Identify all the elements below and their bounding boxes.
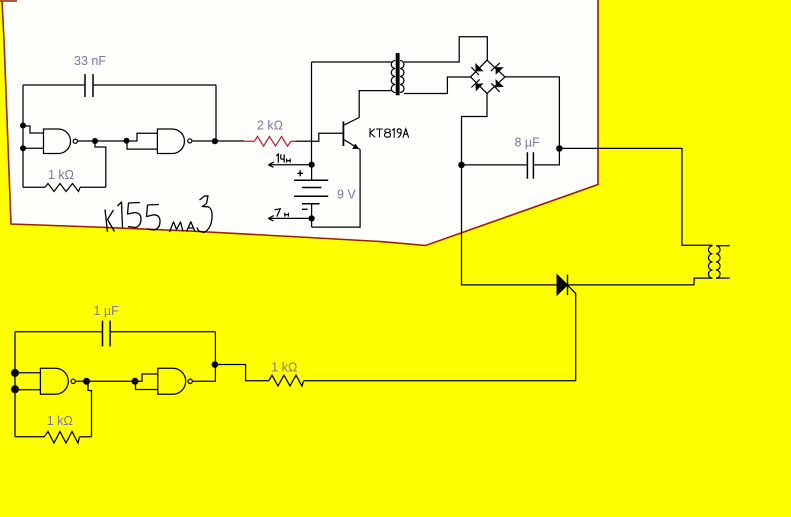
resistor R2 2 kOhm red leads — [244, 140, 296, 142]
wire: T1 secondary bottom to bridge left — [404, 77, 471, 94]
wire: jog node I to DD2.2 lower input — [136, 381, 158, 389]
wire: R1 left lead — [23, 186, 45, 188]
wire: node E to capacitor C2 — [462, 164, 528, 166]
label minus sign — [302, 208, 308, 210]
resistor R2 2 kOhm red zigzag — [255, 136, 292, 146]
thyristor VS1 cathode bar — [567, 275, 569, 296]
wire: pin-7 arrow line — [268, 216, 311, 221]
wire: R4 to thyristor gate — [304, 380, 576, 382]
wire: bottom top rail to capacitor C3 — [15, 331, 215, 333]
NAND gate DD2.2 — [158, 368, 186, 394]
junction node battery minus — [309, 215, 315, 221]
wire: jog from node C to DD1.2 upper input — [127, 133, 158, 141]
resistor R3 1 kOhm zigzag — [44, 432, 79, 444]
wire: C3 right vertical to node H — [214, 332, 216, 365]
wire: right vertical from C1 to gate output node — [215, 85, 217, 141]
diode VD3 (bridge bottom-left) — [471, 79, 483, 91]
wire: left vertical of top oscillator — [22, 85, 24, 187]
transformer T1 primary winding — [391, 61, 395, 93]
wire: bottom oscillator left vertical — [14, 332, 16, 437]
red border of white region — [0, 0, 598, 246]
NAND gate DD1.1 — [44, 129, 71, 154]
wire: node B to DD1.1 lower input — [23, 147, 44, 149]
junction node DD1.2 output — [212, 138, 218, 144]
wire: node G to DD2.1 lower input — [15, 389, 40, 391]
transistor VT1 emitter stroke — [344, 140, 360, 150]
wire: R1 right lead — [80, 186, 106, 188]
NAND gate DD1.2 — [157, 129, 184, 154]
junction node B — [20, 145, 26, 151]
wire: capacitor C2 to node D — [533, 148, 559, 165]
wire: DD1.2 output to R2 — [192, 140, 244, 142]
wire: node E down to thyristor anode — [462, 165, 558, 285]
label plus sign — [298, 170, 304, 176]
wire: emitter down and to battery minus — [312, 150, 361, 228]
wire: node D to T2 primary top — [559, 148, 712, 245]
wire: jog from node C to DD1.2 lower input — [127, 141, 157, 149]
junction node E — [458, 162, 465, 169]
svg-text:33 nF: 33 nF — [74, 54, 106, 68]
transformer T2 primary winding — [708, 246, 712, 278]
wire: base jog to transistor VT1 — [312, 133, 344, 141]
transformer T1 secondary winding — [400, 61, 404, 93]
svg-text:1 kΩ: 1 kΩ — [47, 414, 73, 428]
wire: node F to DD2.1 upper input — [15, 372, 40, 374]
wire: bridge bottom to node E — [462, 94, 488, 165]
diode VD2 (bridge top-right) — [491, 63, 504, 75]
label 7n handwritten — [275, 209, 289, 217]
thyristor VS1 gate lead — [568, 286, 576, 381]
wire: T1 secondary top to bridge top — [404, 37, 487, 62]
junction node G — [11, 385, 19, 393]
wire: feedback jog down to R1 — [95, 141, 106, 187]
capacitor C1 33 nF plates — [85, 74, 93, 97]
capacitor C2 8 uF plates — [527, 152, 533, 179]
NAND gate DD2.1 — [40, 368, 68, 394]
wire: jog from node A to DD1.1 upper input — [23, 126, 44, 133]
transistor VT1 emitter arrow — [352, 144, 359, 149]
wire: T2 secondary bottom stub — [716, 277, 730, 279]
svg-text:9 V: 9 V — [337, 188, 356, 202]
resistor R1 1 kOhm zigzag — [45, 184, 80, 192]
label KT819A — [370, 129, 409, 138]
NAND gate DD2.1 output bubble — [71, 379, 75, 383]
junction node C — [124, 138, 130, 144]
resistor R4 1 kOhm zigzag — [269, 375, 304, 386]
wire: jog node I to DD2.2 upper input — [135, 374, 158, 381]
wire: battery bottom lead — [311, 204, 313, 227]
svg-text:8 µF: 8 µF — [515, 136, 541, 150]
wire: main vertical rail x=311 — [311, 62, 313, 165]
svg-text:1 kΩ: 1 kΩ — [48, 168, 74, 182]
junction node battery plus — [309, 162, 315, 168]
bridge VD1-VD4 diamond — [471, 60, 506, 93]
wire: bridge right corner to node D — [505, 77, 559, 148]
junction node I — [132, 378, 139, 385]
wire: T2 secondary top stub — [716, 245, 730, 247]
label K155LA3 handwritten — [105, 196, 212, 233]
wire: T1 primary bottom to collector — [359, 91, 392, 118]
wire: top feedback rail to capacitor C1 — [23, 84, 216, 86]
svg-text:1 kΩ: 1 kΩ — [271, 360, 297, 374]
transistor VT1 base bar — [342, 121, 344, 146]
wire: node H to R4 — [215, 365, 269, 381]
wire: thyristor cathode to T2 primary bottom — [568, 278, 713, 285]
svg-text:1 µF: 1 µF — [94, 304, 120, 318]
thyristor VS1 triangle — [557, 275, 568, 296]
capacitor C3 1 uF plates — [103, 321, 111, 347]
battery GB1 plate short bottom — [302, 203, 320, 205]
junction node DD2.1 output — [83, 378, 90, 385]
wire: R3 left lead — [15, 436, 44, 438]
wire: top rail to transformer T1 — [312, 61, 393, 63]
wire: DD2.2 output up to node H — [192, 365, 215, 382]
wire: R3 right lead — [80, 436, 92, 438]
battery GB1 plate long — [294, 195, 328, 197]
wire: pin-14 arrow line — [268, 162, 311, 167]
diode VD1 (bridge top-left) — [471, 63, 483, 75]
label 14n handwritten — [276, 154, 290, 163]
diode VD4 (bridge bottom-right) — [491, 79, 504, 92]
wire: feedback step down to R3 — [88, 381, 92, 437]
wire: R2 to base node — [296, 140, 311, 142]
junction node F — [11, 369, 19, 377]
NAND gate DD1.1 output bubble — [73, 139, 77, 143]
white drawing region — [2, 0, 597, 246]
battery GB1 plate short — [302, 187, 322, 189]
transistor VT1 KT819A — [343, 118, 360, 150]
NAND gate DD2.2 output bubble — [188, 379, 192, 383]
junction node A — [20, 123, 26, 129]
junction node D — [556, 145, 563, 152]
svg-text:2 kΩ: 2 kΩ — [257, 119, 283, 133]
junction node H — [212, 361, 219, 368]
junction node on DD1.1 output — [92, 138, 98, 144]
battery GB1 plate long top — [294, 179, 328, 181]
NAND gate DD1.2 output bubble — [188, 139, 192, 143]
transformer T2 secondary winding — [716, 246, 720, 278]
wire: battery top lead — [311, 165, 313, 181]
wire: DD2.1 output to DD2.2 input node — [75, 380, 135, 382]
wire: DD1.1 output to DD1.2 input node — [78, 140, 127, 142]
transformer T1 core — [396, 53, 400, 95]
transistor VT1 collector stroke — [344, 118, 359, 125]
